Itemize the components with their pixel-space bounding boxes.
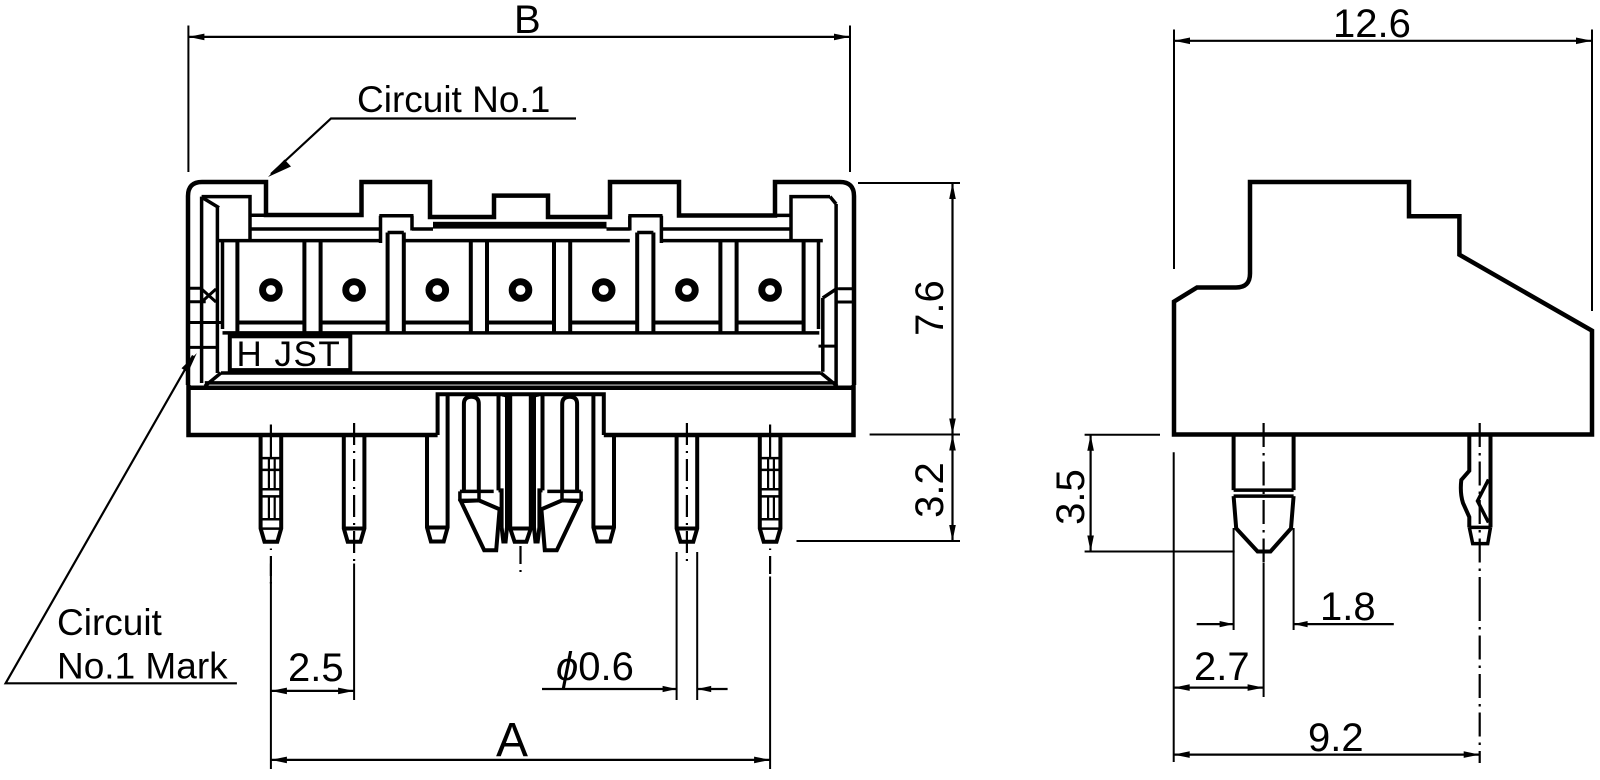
DIMENSION 7.6 / 3.2 [797, 183, 961, 541]
Circuit No.1 Mark leader [6, 356, 237, 684]
contact hole circuit 2 [346, 282, 363, 299]
contact hole circuit 4 [512, 282, 529, 299]
retention band left [460, 491, 500, 509]
housing outer profile [188, 182, 854, 385]
H JST marking box [230, 336, 350, 370]
cell 4 [487, 241, 554, 333]
svg-text:No.1 Mark: No.1 Mark [57, 646, 228, 687]
svg-text:9.2: 9.2 [1308, 716, 1364, 760]
B dimension line [188, 36, 850, 38]
window under block2 [379, 216, 413, 243]
pin 5 bend inner curve [562, 397, 577, 492]
shroud bottom mid line with bevels [205, 373, 837, 386]
left wall ticks [188, 288, 223, 347]
mating face thick band [433, 222, 607, 229]
svg-text:2.5: 2.5 [288, 646, 344, 690]
svg-text:B: B [514, 0, 541, 42]
3.2 dimension line [951, 435, 953, 542]
center pin 4 [510, 396, 531, 542]
pin7 center extension [769, 577, 771, 770]
cells shelf line [219, 239, 823, 243]
press-fit leg right [534, 396, 543, 542]
svg-text:2.7: 2.7 [1194, 645, 1250, 689]
pin tip extension [797, 540, 961, 542]
2.5 dimension line [271, 690, 354, 692]
peg centerline [1262, 423, 1264, 563]
DIMENSION 1.8 [1197, 528, 1394, 630]
pin tip [1469, 527, 1490, 543]
divider caps under blocks [388, 231, 654, 235]
cell 3 [404, 233, 471, 333]
DIMENSION 9.2 [1174, 597, 1480, 763]
contact hole circuit 1 [263, 282, 280, 299]
svg-text:A: A [496, 714, 528, 767]
contact hole circuit 3 [429, 282, 446, 299]
peg funnel right [541, 500, 580, 550]
housing base block sides [189, 385, 854, 435]
DIMENSION 2.7 [1174, 452, 1264, 762]
7.6 dimension line [951, 183, 953, 435]
pin1 center extension [270, 564, 272, 770]
pin 3 bend inner curve [464, 397, 479, 492]
leader line with arrows [542, 688, 677, 690]
7.6 extension top [858, 182, 960, 184]
B extension lines [188, 26, 850, 173]
cell 5 [570, 233, 637, 333]
svg-text:Circuit: Circuit [57, 602, 163, 643]
inner top line under left block [202, 197, 266, 241]
pin 4 centerline [519, 546, 521, 572]
svg-text:3.5: 3.5 [1049, 469, 1093, 525]
pin 2 centerline [353, 423, 355, 566]
svg-text:12.6: 12.6 [1333, 2, 1411, 46]
side pin centerline [1479, 423, 1481, 597]
inner wall right vertical [823, 197, 838, 385]
Circuit No.1 leader [271, 119, 576, 175]
svg-text:7.6: 7.6 [908, 280, 952, 336]
pin 2 [344, 435, 365, 542]
peg bullet tip [1234, 496, 1294, 551]
pin 1 centerline [270, 425, 272, 459]
pocket in base [438, 394, 604, 435]
pin6 edge extensions [677, 552, 698, 700]
press-fit leg left [499, 396, 508, 542]
DIMENSION B [188, 0, 850, 172]
peg funnel left [461, 500, 500, 550]
svg-text:Circuit No.1: Circuit No.1 [357, 79, 550, 120]
side body outline [1174, 182, 1592, 435]
inner top line under right block [775, 197, 830, 241]
cell 7 [737, 241, 804, 333]
mating shroud edge line [250, 227, 791, 231]
svg-text:ϕ0.6: ϕ0.6 [556, 645, 634, 689]
cell 1 [237, 241, 304, 333]
shroud bottom outer edge [188, 386, 854, 391]
window under block3 [628, 216, 662, 243]
right wall inner gap line [817, 241, 821, 329]
inner wall left vertical [202, 197, 219, 383]
pin 3 bent pin [427, 396, 448, 542]
contact hole circuit 5 [595, 282, 612, 299]
retention band right [541, 491, 581, 509]
DIMENSION 3.5 [1049, 435, 1235, 552]
pin 6 [677, 435, 698, 542]
pin2 center extension [353, 564, 355, 701]
left wall inner gap line [221, 241, 225, 329]
pin 4 top fillets [502, 395, 539, 403]
cell bottom ledge line [223, 331, 820, 335]
shroud inner floor line [221, 371, 821, 375]
DIMENSION 12.6 [1174, 2, 1592, 311]
side peg [1234, 435, 1294, 490]
svg-text:3.2: 3.2 [908, 462, 952, 518]
pin barb [1478, 480, 1489, 523]
contact hole circuit 6 [679, 282, 696, 299]
pin 7 square post [760, 435, 781, 542]
pin 6 centerline [686, 423, 688, 566]
DIMENSION phi 0.6 [542, 552, 728, 700]
svg-text:H JST: H JST [237, 335, 342, 374]
pin 5 bent pin [593, 396, 614, 542]
right wall ticks [819, 289, 855, 346]
contact hole circuit 7 [762, 282, 779, 299]
svg-text:1.8: 1.8 [1320, 585, 1376, 629]
A dimension line [271, 759, 770, 761]
cell cavities [237, 233, 803, 333]
cell 6 [653, 233, 720, 333]
cell 2 [321, 233, 388, 333]
pin 1 square post [261, 435, 282, 542]
seating plane extension [870, 434, 960, 436]
side kinked pin [1461, 435, 1491, 527]
pin 7 centerline [769, 425, 771, 459]
DIMENSION 2.5 / A [271, 564, 770, 770]
peg band [1234, 490, 1294, 496]
